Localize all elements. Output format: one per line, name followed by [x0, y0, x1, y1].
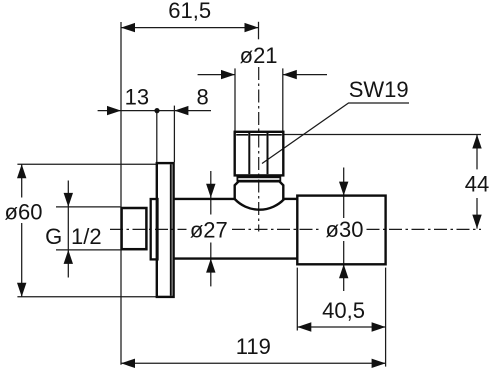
svg-text:13: 13	[125, 84, 149, 109]
svg-text:G: G	[45, 224, 62, 249]
svg-text:1/2: 1/2	[71, 224, 102, 249]
svg-text:ø27: ø27	[190, 218, 228, 243]
svg-text:SW19: SW19	[349, 77, 409, 102]
svg-text:8: 8	[196, 84, 208, 109]
svg-text:61,5: 61,5	[168, 0, 211, 23]
svg-text:44: 44	[465, 172, 489, 197]
svg-text:119: 119	[236, 334, 271, 359]
svg-text:40,5: 40,5	[322, 298, 365, 323]
svg-text:ø60: ø60	[5, 199, 43, 224]
svg-text:ø21: ø21	[240, 43, 278, 68]
svg-text:ø30: ø30	[326, 217, 364, 242]
